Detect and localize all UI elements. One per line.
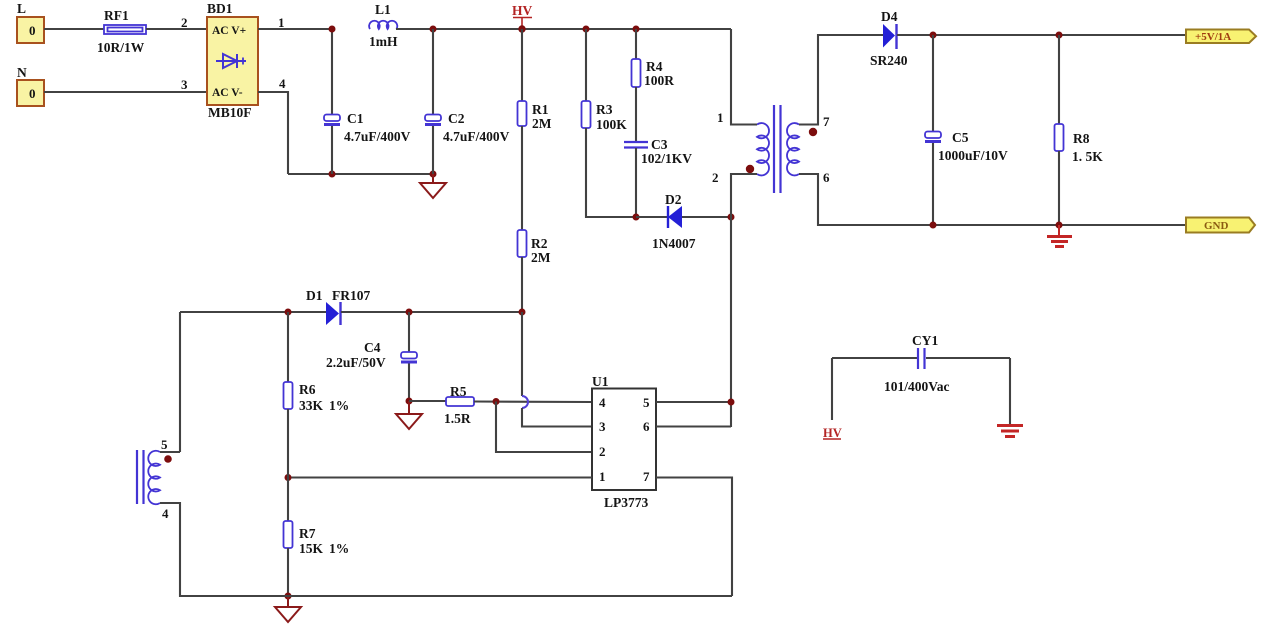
polarity dot aux	[164, 455, 172, 463]
wire D1 to VCC node	[341, 311, 522, 313]
resistor R5 1.5R	[444, 384, 474, 426]
IC U1 LP3773	[592, 374, 656, 510]
polarity dot primary	[746, 165, 754, 173]
earth ground secondary	[1047, 225, 1072, 247]
svg-text:102/1KV: 102/1KV	[641, 151, 692, 166]
node R8 bottom	[1056, 222, 1063, 229]
svg-text:4: 4	[162, 506, 169, 521]
svg-text:R8: R8	[1073, 131, 1090, 146]
node C5 bottom	[930, 222, 937, 229]
resistor R1 2M	[518, 29, 552, 131]
inductor L1 1mH	[369, 2, 398, 49]
node bottom rail R7	[285, 593, 292, 600]
port N	[17, 65, 44, 106]
node C2 top	[430, 26, 437, 33]
diode D4 SR240	[870, 9, 908, 68]
svg-text:SR240: SR240	[870, 53, 908, 68]
wire N to BD1 pin3	[44, 77, 207, 92]
svg-text:1: 1	[599, 469, 606, 484]
svg-text:GND: GND	[1204, 220, 1229, 232]
svg-text:2: 2	[712, 170, 719, 185]
wire bottom rail C1 C2	[288, 173, 433, 175]
wire T1 pin6 down to GND rail	[799, 170, 1186, 225]
capacitor C3 102/1KV	[624, 137, 692, 166]
svg-text:C5: C5	[952, 130, 969, 145]
wire U1 pin1 feedback	[288, 476, 592, 478]
svg-text:L: L	[17, 1, 26, 16]
wire U1 pin7 to bottom rail	[656, 478, 732, 597]
svg-text:CY1: CY1	[912, 333, 938, 348]
svg-text:LP3773: LP3773	[604, 495, 649, 510]
node R5 right	[493, 398, 500, 405]
node R8 top	[1056, 32, 1063, 39]
svg-text:R2: R2	[531, 236, 548, 251]
svg-text:FR107: FR107	[332, 288, 370, 303]
diode D2 1N4007	[652, 192, 696, 251]
node R6 R7 junction	[285, 474, 292, 481]
wire RF1 to BD1 pin2	[146, 15, 207, 30]
svg-text:1. 5K: 1. 5K	[1072, 149, 1103, 164]
svg-text:N: N	[17, 65, 27, 80]
svg-text:4.7uF/400V: 4.7uF/400V	[443, 129, 510, 144]
wire L to RF1	[44, 28, 104, 30]
wire L1 to C2 node	[396, 28, 433, 30]
wire aux pin4 stub	[160, 503, 180, 521]
svg-text:100R: 100R	[644, 73, 674, 88]
node C3 bottom	[633, 214, 640, 221]
resistor RF1 10R/1W	[97, 8, 146, 55]
wire VCC down to U1 pin3 with hop	[522, 312, 592, 427]
transformer T1 aux winding	[148, 451, 160, 504]
svg-text:AC V+: AC V+	[212, 25, 246, 37]
svg-text:R3: R3	[596, 102, 613, 117]
ground at C2	[420, 174, 446, 198]
svg-text:MB10F: MB10F	[208, 105, 252, 120]
node pin5 drain	[728, 399, 735, 406]
port GND	[1186, 218, 1255, 233]
node C2 bottom	[430, 171, 437, 178]
capacitor C1 4.7uF/400V	[324, 29, 411, 174]
capacitor C5 1000uF/10V	[925, 35, 1008, 225]
wire R5 to U1 pin4	[474, 400, 592, 403]
wire D4 to +5V port	[897, 34, 1186, 36]
node R4 top	[633, 26, 640, 33]
diode D1 FR107	[306, 288, 370, 325]
wire CY1 right leg	[1009, 358, 1011, 424]
wire R2 to D1 rail	[521, 257, 523, 312]
svg-text:2M: 2M	[532, 116, 552, 131]
svg-text:5: 5	[643, 395, 650, 410]
svg-text:HV: HV	[512, 3, 533, 18]
resistor R3 100K	[582, 29, 628, 132]
node HV rail	[518, 25, 525, 32]
node C5 top	[930, 32, 937, 39]
wire branch to U1 pin2	[496, 402, 592, 453]
svg-text:1N4007: 1N4007	[652, 236, 696, 251]
node R3 top	[583, 26, 590, 33]
svg-text:1mH: 1mH	[369, 34, 398, 49]
svg-text:L1: L1	[375, 2, 391, 17]
wire U1 pin6 to drain net	[656, 425, 731, 427]
svg-text:D2: D2	[665, 192, 682, 207]
resistor R2 2M	[518, 230, 551, 265]
ground at C4	[396, 401, 422, 429]
wire CY1 left leg	[831, 358, 833, 420]
svg-text:2M: 2M	[531, 250, 551, 265]
svg-text:2: 2	[599, 444, 606, 459]
port +5V/1A	[1186, 30, 1256, 44]
svg-text:R6: R6	[299, 382, 316, 397]
svg-text:4.7uF/400V: 4.7uF/400V	[344, 129, 411, 144]
svg-text:R7: R7	[299, 526, 316, 541]
wire U1 pin5 to drain net	[656, 401, 731, 403]
wire R1 to R2	[521, 126, 523, 230]
svg-text:6: 6	[823, 170, 830, 185]
node C1 top	[329, 26, 336, 33]
svg-text:C4: C4	[364, 340, 381, 355]
svg-text:10R/1W: 10R/1W	[97, 40, 145, 55]
svg-text:RF1: RF1	[104, 8, 129, 23]
node R2 bottom VCC	[519, 309, 526, 316]
resistor R6 33K 1%	[284, 312, 350, 478]
wire R4 to C3	[635, 87, 637, 141]
transformer T1 core	[774, 105, 781, 193]
svg-text:1.5R: 1.5R	[444, 411, 471, 426]
svg-text:0: 0	[29, 23, 36, 38]
svg-text:5: 5	[161, 437, 168, 452]
svg-text:2: 2	[181, 15, 188, 30]
node C1 bottom	[329, 171, 336, 178]
svg-text:D1: D1	[306, 288, 323, 303]
wire T1 pin7 up to D4	[799, 35, 883, 129]
node C4 bottom	[406, 398, 413, 405]
resistor R8 1.5K	[1055, 35, 1104, 225]
svg-text:HV: HV	[823, 426, 842, 440]
svg-text:1000uF/10V: 1000uF/10V	[938, 148, 1008, 163]
wire D2 rail	[636, 216, 731, 218]
wire C3 to D2 rail	[635, 148, 637, 217]
transformer T1 secondary winding	[787, 123, 799, 175]
wire D1 rail	[180, 311, 326, 313]
svg-text:7: 7	[823, 114, 830, 129]
ground at R7	[275, 596, 301, 622]
wire T1 pin2 down	[712, 170, 757, 427]
svg-text:+5V/1A: +5V/1A	[1195, 31, 1231, 43]
svg-text:1: 1	[717, 110, 724, 125]
wire aux pin5 up to D1 rail	[179, 312, 181, 452]
wire aux pin5 stub	[160, 437, 180, 452]
wire top rail C2 to transformer	[433, 28, 731, 30]
node R6 top	[285, 309, 292, 316]
svg-text:D4: D4	[881, 9, 898, 24]
wire bottom rail	[180, 502, 732, 596]
polarity dot secondary	[809, 128, 817, 136]
resistor R4 100R	[632, 29, 675, 88]
svg-text:0: 0	[29, 86, 36, 101]
svg-text:6: 6	[643, 419, 650, 434]
wire BD1 pin1 to top rail	[258, 15, 332, 30]
bridge rectifier BD1 MB10F	[207, 1, 258, 120]
svg-text:C2: C2	[448, 111, 465, 126]
earth ground at CY1	[997, 426, 1023, 437]
svg-text:7: 7	[643, 469, 650, 484]
node D2 to pin2 net	[728, 214, 735, 221]
resistor R7 15K 1%	[284, 478, 350, 597]
svg-text:3: 3	[599, 419, 606, 434]
transformer T1 primary winding	[757, 123, 769, 175]
wire C4 to R5	[409, 400, 446, 402]
node C4 top	[406, 309, 413, 316]
port L	[17, 1, 44, 43]
wire T1 pin1 from top rail	[717, 29, 757, 125]
net label HV	[512, 3, 533, 29]
svg-text:BD1: BD1	[207, 1, 233, 16]
svg-text:4: 4	[599, 395, 606, 410]
wire R3 down to D2 rail	[586, 128, 636, 217]
svg-text:R1: R1	[532, 102, 549, 117]
svg-text:AC V-: AC V-	[212, 87, 243, 99]
transformer T1 aux core	[137, 450, 144, 504]
svg-text:101/400Vac: 101/400Vac	[884, 379, 950, 394]
svg-text:3: 3	[181, 77, 188, 92]
svg-text:1: 1	[278, 15, 285, 30]
svg-text:C3: C3	[651, 137, 668, 152]
capacitor CY1 101/400Vac	[832, 333, 1010, 394]
net label HV at CY1	[823, 426, 842, 440]
capacitor C4 2.2uF/50V	[326, 312, 417, 401]
svg-text:R4: R4	[646, 59, 663, 74]
svg-text:2.2uF/50V: 2.2uF/50V	[326, 355, 386, 370]
capacitor C2 4.7uF/400V	[425, 29, 510, 174]
svg-text:U1: U1	[592, 374, 609, 389]
svg-text:100K: 100K	[596, 117, 627, 132]
wire BD1 pin4 down to bottom rail	[258, 76, 288, 174]
svg-text:C1: C1	[347, 111, 364, 126]
svg-text:4: 4	[279, 76, 286, 91]
